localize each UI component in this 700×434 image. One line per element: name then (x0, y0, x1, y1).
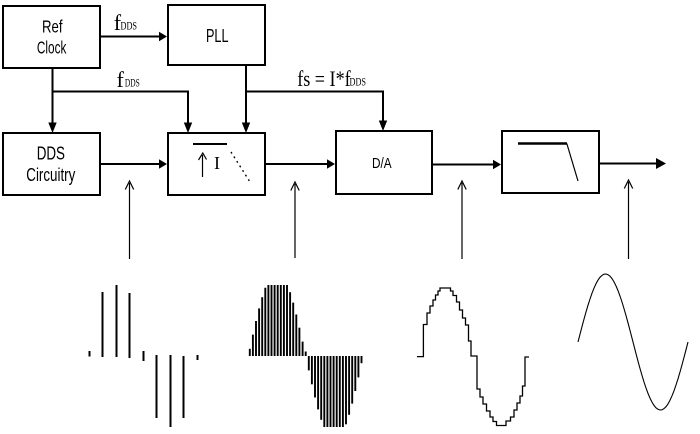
waveform sparse samples (90, 285, 198, 427)
wire Ref Clock to DDS Circuitry (48, 69, 56, 133)
block interpolating filter (168, 133, 265, 195)
svg-text:Circuitry: Circuitry (26, 165, 75, 185)
wire Ref Clock to PLL (101, 32, 167, 42)
svg-text:f: f (117, 67, 125, 92)
pointer arrow DDS output (125, 181, 133, 259)
svg-text:fs = I*f: fs = I*f (297, 66, 351, 91)
svg-text:DDS: DDS (121, 21, 138, 33)
label fs = I*fDDS (297, 66, 366, 91)
block DDS Circuitry (3, 133, 100, 195)
wire PLL to interpolator (242, 66, 250, 133)
filter rolloff line (567, 144, 578, 182)
svg-text:PLL: PLL (206, 25, 229, 46)
waveform smooth sine (578, 274, 688, 410)
interpolator dotted slope (231, 152, 251, 184)
label fDDS top (114, 10, 137, 35)
interpolator overline (193, 143, 227, 145)
pointer arrow interpolator output (291, 182, 299, 258)
block D/A (336, 131, 432, 194)
filter passband line (518, 142, 567, 145)
wire D/A to filter (433, 160, 501, 170)
block PLL (168, 5, 265, 65)
svg-text:DDS: DDS (125, 78, 140, 90)
wire fs bus to D/A (246, 92, 387, 132)
svg-text:DDS: DDS (37, 144, 65, 164)
block Ref Clock (3, 6, 100, 68)
svg-text:DDS: DDS (350, 77, 367, 89)
wire DDS Circuitry to interpolator (101, 159, 167, 169)
svg-text:D/A: D/A (372, 155, 392, 172)
svg-text:Ref: Ref (42, 16, 63, 36)
wire filter to output (600, 158, 666, 169)
interpolator up-arrow symbol (199, 153, 207, 177)
svg-text:Clock: Clock (37, 38, 67, 58)
svg-text:I: I (214, 153, 220, 173)
wire fDDS bus to interpolator (53, 92, 193, 134)
wire interpolator to D/A (266, 159, 335, 169)
pointer arrow D/A output (458, 181, 466, 259)
waveform interpolated samples (250, 285, 362, 427)
label fDDS mid (117, 67, 140, 92)
waveform D/A staircase (417, 288, 529, 426)
pointer arrow filter output (624, 180, 632, 259)
block low-pass filter (502, 131, 599, 193)
